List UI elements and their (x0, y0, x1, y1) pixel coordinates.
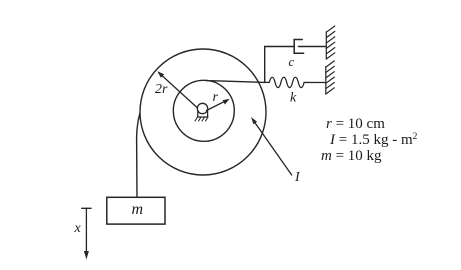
svg-text:k: k (290, 91, 297, 106)
rope from pulley to mass (137, 113, 140, 197)
svg-text:2r: 2r (155, 82, 168, 97)
damper c piston rod (298, 46, 326, 48)
pulley outer circle 2r (140, 49, 266, 175)
svg-text:m = 10 kg: m = 10 kg (321, 148, 382, 164)
svg-text:m: m (132, 201, 144, 218)
svg-text:x: x (74, 221, 82, 236)
pivot pin with ground (195, 103, 208, 121)
svg-text:c: c (289, 54, 295, 69)
mass block m (107, 197, 165, 224)
pulley inner circle r (173, 80, 234, 141)
radius arrow r (207, 99, 230, 111)
radius arrow 2r (157, 71, 197, 107)
wire damper branch vertical (264, 47, 266, 83)
svg-text:I = 1.5 kg - m2: I = 1.5 kg - m2 (329, 132, 418, 148)
wire damper branch horizontal (265, 46, 295, 48)
svg-text:r = 10 cm: r = 10 cm (326, 116, 385, 132)
cord from inner pulley to spring junction (206, 81, 265, 83)
svg-text:r: r (213, 90, 219, 105)
svg-text:I: I (294, 170, 301, 185)
spring k (265, 77, 326, 87)
wall bottom (spring anchor) (326, 61, 335, 94)
wall top (damper anchor) (326, 26, 335, 59)
inertia pointer arrow I (251, 117, 292, 175)
damper c cylinder (294, 40, 303, 54)
displacement arrow x (82, 208, 91, 259)
